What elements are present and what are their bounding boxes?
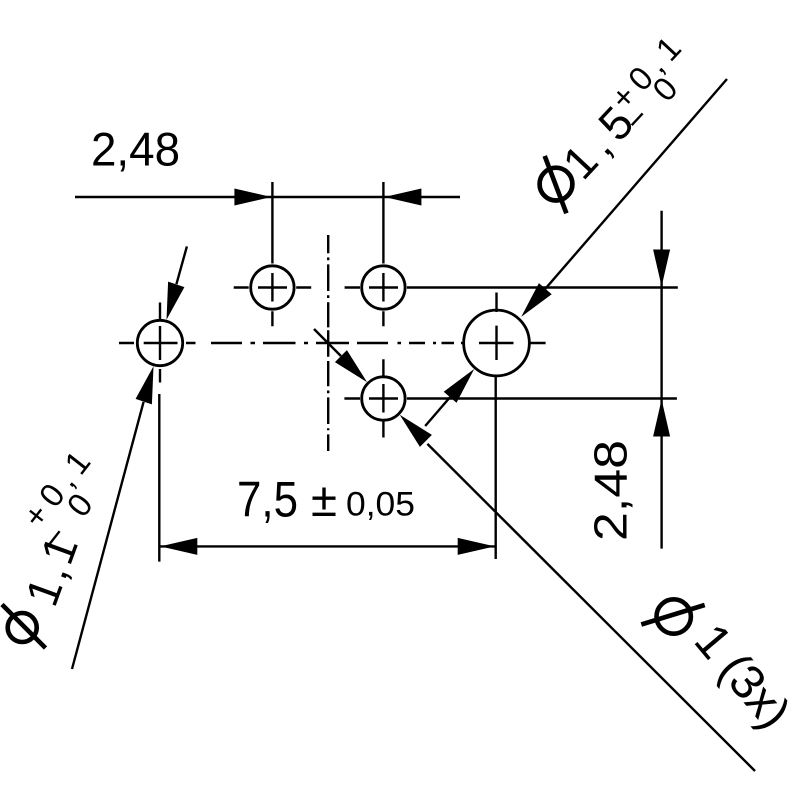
svg-text:0,05: 0,05 [346, 486, 415, 524]
arrow leader Ø1,1 lower (points up-right at left hole) [136, 366, 154, 404]
extension line right lower (row of bottom hole) [407, 397, 677, 399]
arrow right dim up-pointing [653, 400, 670, 437]
arrow leader Ø1,1 upper (points down-left at left hole) [167, 282, 185, 320]
arrow top dim left-pointing [384, 189, 421, 206]
svg-text:7,5: 7,5 [237, 471, 298, 527]
hole bottom-mid (Ø1) [362, 377, 405, 420]
hole left (Ø1,1) [137, 320, 182, 365]
extension line top-left hole [271, 182, 273, 264]
centerline horizontal [211, 342, 465, 344]
dimension 2,48 top: line [75, 196, 460, 198]
hole big (Ø1,5) [464, 310, 530, 376]
dimension 7,5: line [159, 545, 495, 547]
arrow leader Ø1 lower (points up-left at bottom hole) [400, 415, 432, 447]
leader Ø1,1 [72, 246, 187, 669]
dimension 2,48 right: line [660, 211, 662, 549]
arrow leader Ø1,5 lower (points up-right at big hole) [444, 369, 475, 403]
extension line right upper (row of top holes) [407, 286, 678, 288]
label Ø1,1 (rotated) [2, 605, 46, 649]
arrow 7,5 right-pointing [458, 538, 495, 555]
extension line right for 7,5 (from big hole) [495, 376, 497, 560]
center mark hole top-right [345, 273, 398, 326]
extension line left for 7,5 [158, 394, 160, 562]
centerline vertical [327, 235, 329, 451]
center mark hole big [479, 293, 546, 361]
arrow leader Ø1,5 upper (points down-left at big hole) [521, 283, 552, 317]
hole top-right (Ø1) [362, 266, 405, 309]
hole top-left (Ø1) [251, 266, 294, 309]
extension line top-right hole [382, 182, 384, 264]
arrow right dim down-pointing [653, 250, 670, 287]
center mark hole top-left [234, 273, 312, 326]
svg-text:±: ± [311, 474, 337, 527]
center mark hole left [119, 303, 196, 383]
svg-text:2,48: 2,48 [585, 440, 637, 541]
label Ø1,5 (rotated) [540, 156, 573, 213]
svg-text:2,48: 2,48 [91, 124, 180, 177]
arrow 7,5 left-pointing [160, 538, 197, 555]
label Ø1 (3x) (rotated) [641, 599, 704, 633]
leader Ø1 (3x) [314, 329, 755, 771]
arrow top dim right-pointing [234, 189, 271, 206]
leader Ø1,5 [425, 79, 727, 426]
center mark hole bottom-mid [344, 359, 398, 437]
arrow leader Ø1 upper (points down-right at bottom hole) [335, 350, 367, 382]
